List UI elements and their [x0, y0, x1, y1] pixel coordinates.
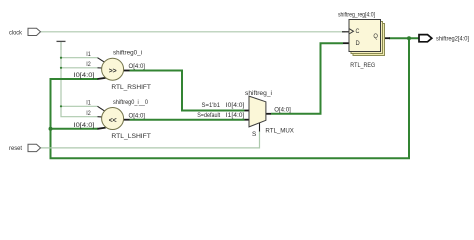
svg-text:I0[4:0]: I0[4:0] — [74, 72, 95, 79]
pin stub I2 LSHIFT — [98, 116, 102, 118]
wire constant-1 net vertical — [61, 50, 98, 117]
svg-text:I0[4:0]: I0[4:0] — [74, 122, 95, 129]
svg-text:I1: I1 — [86, 100, 91, 107]
svg-text:shiftreg2[4:0]: shiftreg2[4:0] — [436, 36, 469, 43]
svg-text:reset: reset — [9, 145, 22, 152]
pin stub Q REG (bus) — [381, 37, 391, 39]
body circle RSHIFT — [102, 58, 124, 80]
svg-text:S: S — [252, 131, 257, 138]
wire reset net (thin) — [41, 131, 260, 148]
wire feedback bus Q to shifters — [51, 38, 410, 158]
input port reset — [28, 144, 41, 151]
body stack back layer — [353, 24, 385, 56]
input port clock — [28, 28, 41, 35]
pin stub I1 RSHIFT — [98, 58, 105, 63]
wire LSHIFT O to MUX I1 (bus) — [130, 119, 245, 121]
svg-text:RTL_LSHIFT: RTL_LSHIFT — [111, 133, 151, 140]
wire REG Q to output port (bus) — [389, 37, 419, 39]
pin stub S MUX — [259, 123, 261, 132]
pin stub I1 LSHIFT — [98, 106, 105, 111]
svg-text:I1: I1 — [86, 51, 91, 58]
svg-text:shiftreg_i: shiftreg_i — [245, 90, 272, 97]
svg-text:Q: Q — [373, 33, 378, 40]
junction dot LSHIFT I0 — [49, 127, 53, 131]
body trapezoid MUX — [249, 96, 266, 127]
power VCC tee symbol — [57, 41, 66, 50]
svg-text:C: C — [356, 28, 360, 35]
svg-text:<<: << — [109, 118, 117, 125]
svg-text:shiftreg0_i__0: shiftreg0_i__0 — [113, 99, 148, 106]
pin stub O LSHIFT (bus) — [124, 119, 130, 121]
body stack front layer — [349, 20, 381, 52]
junction dot Q feedback — [407, 36, 411, 40]
svg-text:RTL_MUX: RTL_MUX — [265, 127, 294, 134]
wire branch bus to LSHIFT I0 — [51, 128, 99, 130]
pin stub O RSHIFT (bus) — [124, 70, 130, 72]
body circle LSHIFT — [102, 108, 124, 130]
op RTL_LSHIFT U2 — [74, 99, 151, 140]
pin stub O MUX (bus) — [266, 113, 271, 115]
wire branch to LSHIFT I1 — [61, 105, 98, 107]
svg-text:clock: clock — [9, 29, 23, 36]
svg-text:RTL_REG: RTL_REG — [350, 62, 375, 69]
svg-text:O[4:0]: O[4:0] — [129, 112, 146, 119]
svg-text:D: D — [356, 40, 361, 47]
junction dot I1 RSHIFT — [60, 57, 62, 59]
wire RSHIFT O to MUX I0 (bus) — [130, 71, 245, 111]
svg-text:S=default: S=default — [197, 112, 220, 119]
svg-text:I2: I2 — [86, 61, 91, 68]
junction dot I1 LSHIFT — [60, 105, 62, 107]
svg-text:O[4:0]: O[4:0] — [274, 106, 291, 113]
pin stub I1 MUX (bus) — [245, 119, 250, 121]
wire branch to RSHIFT I2 — [61, 67, 98, 69]
pin stub I0 MUX (bus) — [245, 110, 250, 112]
wire branch to RSHIFT I1 — [61, 57, 98, 59]
register RTL_REG shiftreg_reg — [338, 11, 390, 69]
output port shiftreg2[4:0] — [419, 35, 432, 42]
mux RTL_MUX U3 — [197, 90, 294, 138]
svg-text:I0[4:0]: I0[4:0] — [226, 102, 245, 109]
pin stub I0 RSHIFT (bus) — [98, 78, 106, 79]
svg-text:>>: >> — [109, 68, 117, 75]
svg-text:RTL_RSHIFT: RTL_RSHIFT — [111, 84, 151, 91]
svg-text:shiftreg0_i: shiftreg0_i — [113, 50, 142, 57]
wire clock net (thin) — [41, 31, 346, 33]
svg-text:shiftreg_reg[4:0]: shiftreg_reg[4:0] — [338, 11, 375, 18]
clock wedge pin C — [349, 29, 354, 34]
pin stub I2 RSHIFT — [98, 67, 102, 69]
op RTL_RSHIFT U1 — [74, 50, 151, 91]
svg-text:O[4:0]: O[4:0] — [129, 63, 146, 70]
pin stub C of shiftreg_reg — [342, 31, 349, 33]
wire MUX O to REG D (bus) — [271, 43, 343, 114]
pin stub D REG (bus) — [343, 42, 349, 44]
svg-text:I2: I2 — [86, 110, 91, 117]
body stack middle layer — [351, 22, 383, 54]
pin stub I0 LSHIFT (bus) — [98, 128, 106, 129]
svg-text:I1[4:0]: I1[4:0] — [226, 112, 245, 119]
svg-text:S=1'b1: S=1'b1 — [202, 102, 221, 109]
junction dot I2 RSHIFT — [60, 67, 62, 69]
